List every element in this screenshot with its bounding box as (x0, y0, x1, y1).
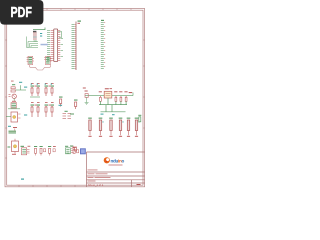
capacitor pair C3 C4 (45, 86, 55, 97)
red pin dots on caps (100, 95, 127, 98)
wire bus from badge area to U1 (33, 28, 45, 30)
frame zone ticks top (19, 9, 131, 11)
logo stamp symbol (80, 148, 86, 154)
bottom row cluster R4 (48, 146, 56, 156)
+5V flag (129, 92, 133, 93)
connector J1 body line (75, 22, 77, 71)
U1 left pin labels (47, 31, 50, 61)
U1 value text (41, 44, 49, 46)
pull-up resistor column R8 (119, 118, 124, 137)
logo tagline (109, 164, 123, 167)
node label block near U1 top (33, 31, 36, 32)
net label stack left of U1 (33, 33, 37, 41)
USB connector right contact block (44, 56, 51, 64)
jumper block J5 (63, 114, 72, 119)
reset circuit cluster Q1 (9, 82, 28, 102)
USB connector J3 shell outline (30, 65, 51, 71)
diode D1 (59, 97, 63, 107)
logo icon swirl (104, 157, 110, 163)
green bracket right of U1 top (58, 32, 61, 38)
capacitor pair C5 C6 (31, 105, 41, 118)
jumper block label (65, 111, 68, 112)
pull-up resistor column R9 (127, 118, 131, 137)
output capacitor C12 (119, 91, 122, 101)
+5V hook wire (132, 93, 134, 96)
pull-up resistor column R10 (135, 118, 140, 137)
connector J1 pin labels (72, 25, 77, 69)
U1 right pins (58, 31, 63, 61)
pull-up resistor column R7 (109, 118, 113, 137)
U1 left pins (51, 31, 54, 61)
svg-text:PDF: PDF (10, 5, 32, 21)
power input jack label (83, 88, 86, 89)
svg-text:nduino: nduino (111, 159, 125, 164)
power rail wire (85, 95, 133, 97)
pair designator red labels (34, 86, 50, 106)
teal pin numbers right of harness (40, 33, 42, 37)
pull-up resistor column R5 (88, 118, 92, 137)
right edge component C14 (138, 115, 141, 122)
teal net label above columns (112, 114, 115, 115)
pair pin dots (32, 87, 53, 107)
output capacitor C11 (114, 91, 117, 101)
capacitor pair C1 C2 (30, 86, 40, 98)
bottom row connector J4 (21, 146, 31, 155)
connector block J6 (8, 103, 20, 109)
buzzer LS1 (6, 112, 27, 122)
voltage regulator U2 (104, 88, 112, 98)
title block outline (87, 152, 145, 187)
bottom row diode D2 (73, 147, 79, 153)
frame zone ticks left (5, 40, 7, 158)
net flag cluster top (8, 126, 17, 133)
title block row texts (88, 170, 111, 182)
connector J2 designator (101, 20, 104, 21)
ground bus rail (99, 98, 127, 112)
connector J2 pin rows (101, 23, 105, 69)
sheet border frame outer (5, 9, 145, 187)
ground symbol under diode (85, 97, 89, 104)
bottom row cluster LED2 (34, 146, 46, 156)
pull-up resistor column R6 (99, 118, 104, 137)
U1 microcontroller body (54, 29, 58, 62)
power input diode D3 (85, 91, 89, 98)
teal test point label (21, 179, 24, 180)
bottom small cluster near title block (70, 146, 77, 152)
bottom row crystal X1 (65, 146, 74, 154)
connector J1 designator (78, 21, 82, 24)
input capacitor C10 (99, 91, 102, 101)
green wire harness left of U1 (27, 37, 39, 48)
USB connector left contact block (27, 56, 34, 64)
frame zone ticks bottom (19, 185, 75, 187)
sheet border frame inner (7, 10, 143, 185)
rev text right (137, 184, 141, 185)
page background (0, 0, 149, 198)
teal label under ground bus (101, 114, 104, 115)
cluster designator labels row1 (11, 81, 54, 84)
frame zone ticks right (143, 40, 145, 128)
net label text (70, 114, 74, 115)
pair teal dots (31, 84, 52, 85)
resistor R1 (74, 100, 78, 110)
cluster designator labels row2 (31, 101, 54, 104)
power LED D4 (8, 139, 19, 155)
PDF badge (0, 0, 43, 25)
svg-text:Sheet_1 of 1: Sheet_1 of 1 (88, 183, 104, 187)
capacitor pair C7 C8 (45, 105, 55, 118)
output capacitor C13 (124, 91, 127, 101)
